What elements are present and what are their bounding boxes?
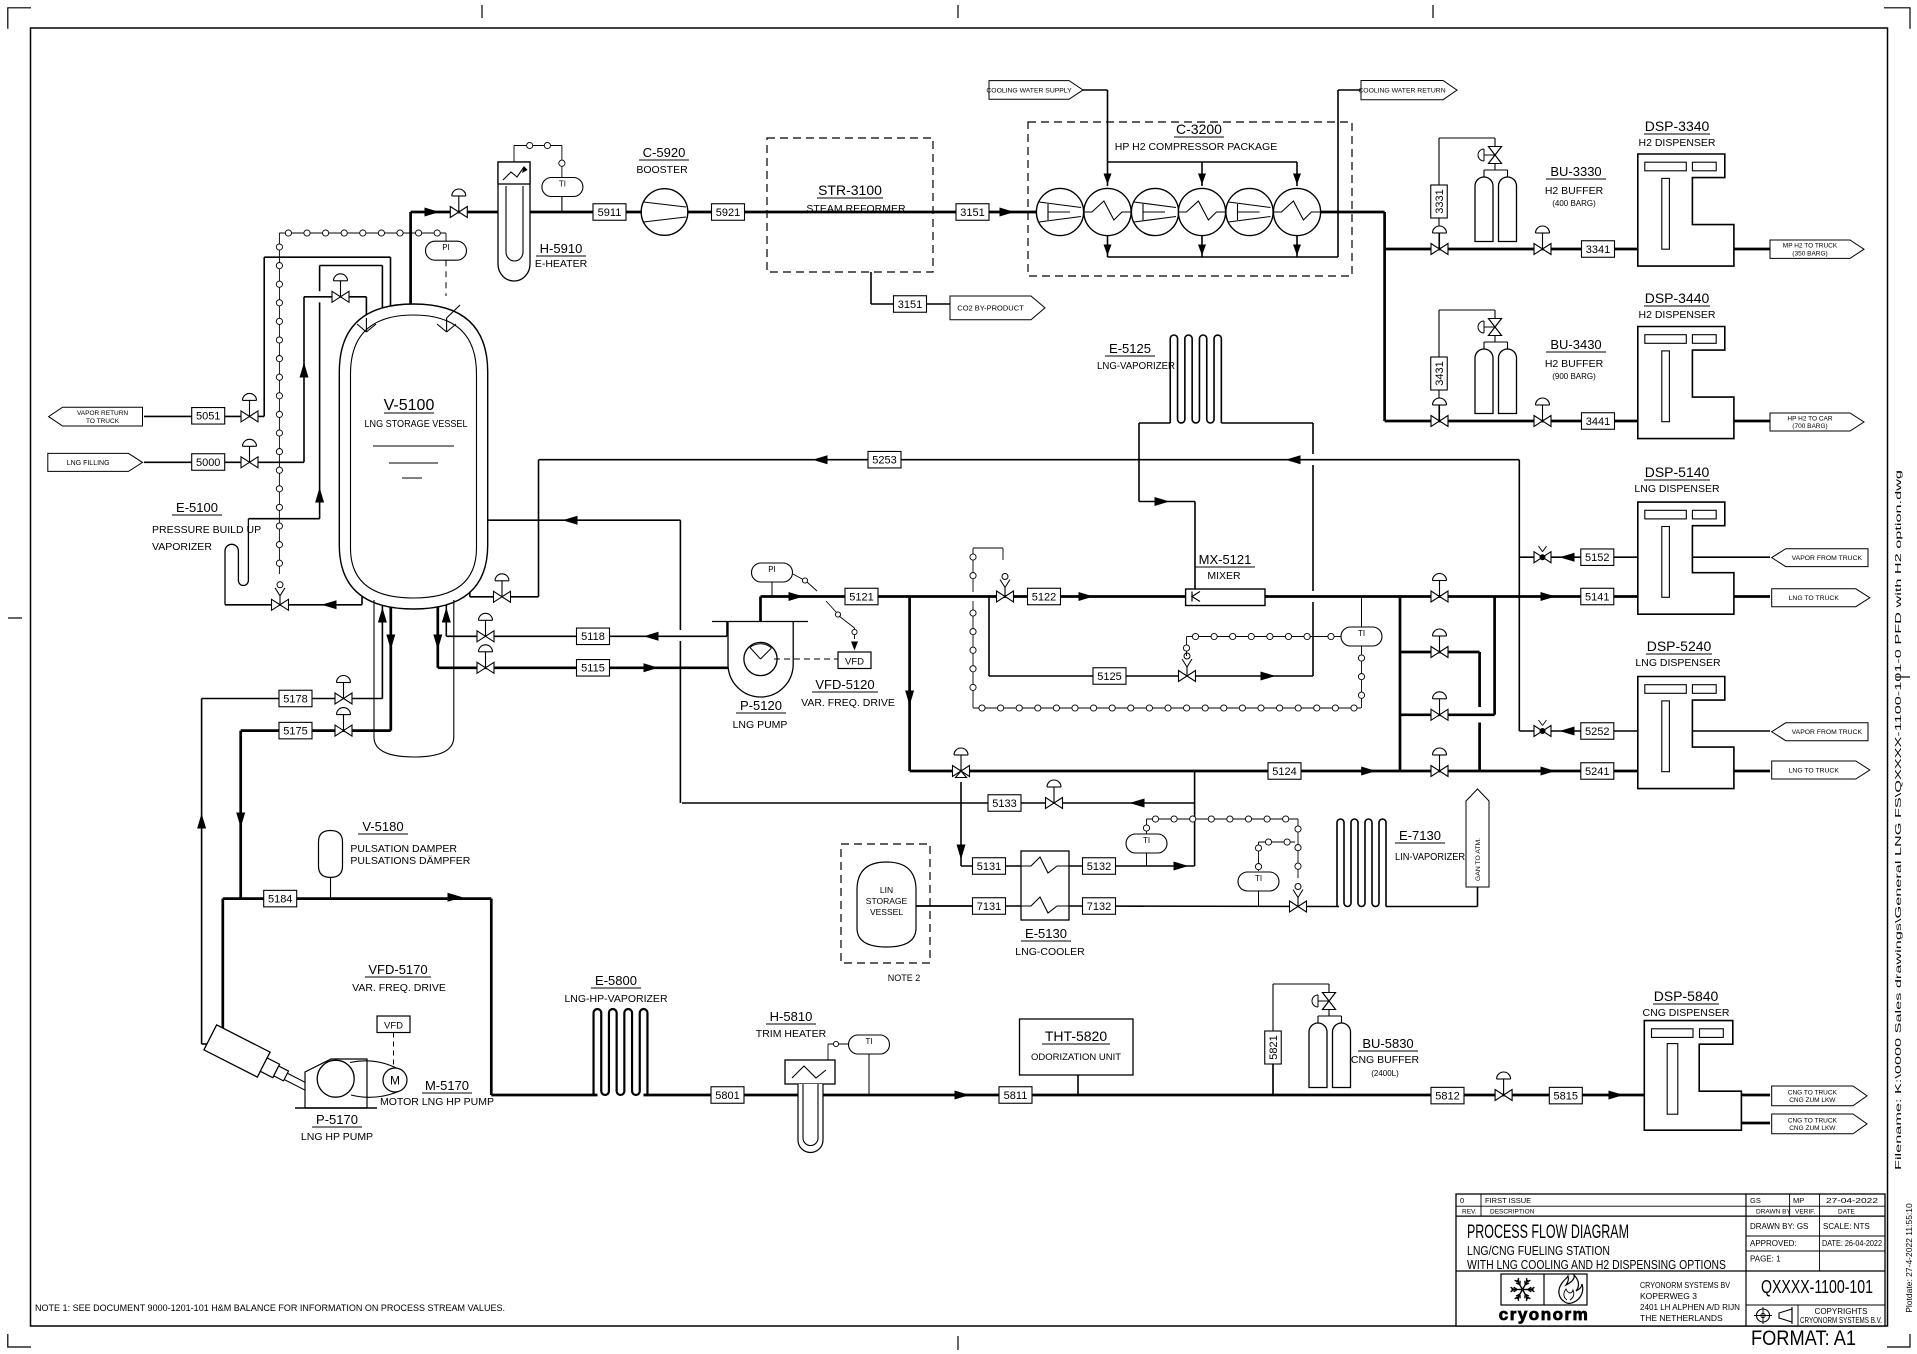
wire DSP-5840 outlet 2 bbox=[1741, 1122, 1770, 1125]
svg-text:STEAM REFORMER: STEAM REFORMER bbox=[806, 203, 906, 215]
svg-text:LNG-HP-VAPORIZER: LNG-HP-VAPORIZER bbox=[564, 993, 667, 1005]
label BU-3430 bbox=[1545, 337, 1606, 381]
label M-5170 bbox=[380, 1078, 494, 1108]
svg-text:COOLING WATER RETURN: COOLING WATER RETURN bbox=[1358, 88, 1445, 95]
arrow vessel outlet bbox=[386, 635, 395, 650]
wire CW into cooler 1 bbox=[1107, 162, 1109, 186]
svg-text:LNG-VAPORIZER: LNG-VAPORIZER bbox=[1097, 360, 1175, 372]
wire 5253 drop to vessel bbox=[538, 460, 540, 597]
valve H2 branch 2 inlet bbox=[1431, 416, 1440, 427]
wire 5118 recirc line bbox=[446, 635, 727, 637]
svg-text:3441: 3441 bbox=[1586, 416, 1610, 428]
wire vapor return riser bbox=[263, 257, 265, 416]
stream label 5121 bbox=[845, 588, 878, 605]
stream label 5115 bbox=[577, 660, 610, 677]
arrow into vessel left bbox=[378, 608, 387, 623]
wire E-5125 left leg bbox=[1138, 423, 1140, 502]
3-way valve LNG distribution bbox=[953, 766, 962, 777]
svg-text:5152: 5152 bbox=[1585, 552, 1609, 564]
sheet corner mark top-left bbox=[8, 8, 31, 29]
bottom ruler tick bbox=[957, 1336, 959, 1350]
heater H-5910 bbox=[498, 162, 530, 281]
buffer BU-5830 with cylinders bbox=[1265, 984, 1351, 1095]
arrow 3-way valve branch bbox=[957, 845, 966, 860]
svg-text:THT-5820: THT-5820 bbox=[1045, 1028, 1107, 1044]
svg-text:PAGE: 1: PAGE: 1 bbox=[1750, 1255, 1781, 1264]
wire E-5125 right leg lower bbox=[1312, 602, 1314, 676]
svg-text:WITH LNG COOLING AND H2 D: WITH LNG COOLING AND H2 DISPENSING OPTIO… bbox=[1467, 1257, 1726, 1272]
svg-text:3341: 3341 bbox=[1586, 244, 1610, 256]
valve LNG line 5141 bbox=[1431, 591, 1440, 602]
wire 5175 line bbox=[241, 729, 391, 732]
wire from CWS flag bbox=[1083, 89, 1108, 91]
svg-text:5921: 5921 bbox=[716, 207, 740, 219]
arrow CW return bbox=[1198, 245, 1206, 256]
svg-text:H2 BUFFER: H2 BUFFER bbox=[1545, 185, 1604, 197]
compressor package C-3200 stages bbox=[1036, 188, 1320, 235]
svg-text:5125: 5125 bbox=[1097, 671, 1121, 683]
stream label 5132 bbox=[1083, 858, 1116, 875]
flag LNG to truck 1 bbox=[1772, 589, 1870, 607]
svg-text:TO TRUCK: TO TRUCK bbox=[86, 418, 120, 425]
wire 5132 line bbox=[1069, 865, 1195, 867]
vessel LIN storage bbox=[857, 862, 916, 947]
svg-text:MP H2 TO TRUCK: MP H2 TO TRUCK bbox=[1783, 243, 1838, 250]
label V-5180 bbox=[350, 819, 470, 867]
svg-text:7131: 7131 bbox=[977, 901, 1001, 913]
svg-text:MOTOR LNG HP PUMP: MOTOR LNG HP PUMP bbox=[380, 1096, 494, 1108]
wire LNG filling top line bbox=[304, 296, 366, 298]
wire drop to LNG saturation loop bbox=[908, 597, 911, 772]
svg-text:5175: 5175 bbox=[283, 725, 307, 737]
arrow 5152 vapor bbox=[1560, 553, 1575, 562]
svg-text:LNG TO TRUCK: LNG TO TRUCK bbox=[1789, 767, 1840, 774]
wire 5175 drop to HP pump header bbox=[239, 731, 242, 899]
wire compressor outlet bbox=[1320, 211, 1384, 214]
svg-text:VAR. FREQ. DRIVE: VAR. FREQ. DRIVE bbox=[352, 982, 446, 994]
wire H2 line to DSP-3440 bbox=[1385, 420, 1638, 423]
wire vapor into vessel dome bbox=[390, 257, 392, 313]
arrow CW return bbox=[1104, 245, 1112, 256]
svg-text:TI: TI bbox=[1255, 874, 1262, 883]
wire 5133 line bbox=[682, 802, 1195, 804]
svg-text:5131: 5131 bbox=[977, 861, 1001, 873]
flag cooling water return bbox=[1361, 81, 1457, 100]
svg-text:LIN-VAPORIZER: LIN-VAPORIZER bbox=[1395, 851, 1465, 863]
svg-text:APPROVED:: APPROVED: bbox=[1750, 1239, 1797, 1248]
arrow 5115 suction bbox=[644, 663, 659, 672]
dispenser DSP-3340 bbox=[1638, 154, 1734, 266]
arrow 5133 line bbox=[1130, 799, 1145, 808]
svg-text:FORMAT: A1: FORMAT: A1 bbox=[1751, 1326, 1856, 1350]
wire 7132 LIN line bbox=[1069, 905, 1339, 908]
dispenser DSP-5240 bbox=[1638, 677, 1734, 789]
pump P-5170 with motor M-5170 bbox=[204, 1025, 407, 1108]
label DSP-3440 bbox=[1638, 290, 1715, 321]
svg-text:LNG HP PUMP: LNG HP PUMP bbox=[301, 1131, 373, 1143]
svg-text:5132: 5132 bbox=[1087, 861, 1111, 873]
svg-text:STORAGE: STORAGE bbox=[866, 896, 908, 906]
svg-text:NOTE 1: SEE DOCUMENT 9000: NOTE 1: SEE DOCUMENT 9000-1201-101 H&M B… bbox=[35, 1303, 505, 1314]
wire 5253 vapor return header bbox=[539, 459, 1520, 461]
wire to CWR flag bbox=[1338, 89, 1361, 91]
valve vessel gas outlet bbox=[450, 207, 459, 218]
stream label 3151 bbox=[956, 204, 989, 221]
vessel V-5100 bbox=[339, 304, 487, 609]
svg-text:CNG DISPENSER: CNG DISPENSER bbox=[1643, 1007, 1730, 1019]
wire 5132 return riser bbox=[1194, 771, 1196, 866]
wire vessel outlet to 5115 bbox=[436, 578, 439, 668]
wire DSP-3440 outlet bbox=[1734, 420, 1770, 423]
trim heater TI bbox=[828, 1035, 890, 1095]
wire DSP-5240 outlet bbox=[1734, 770, 1770, 773]
svg-text:7132: 7132 bbox=[1087, 901, 1111, 913]
stream label 5801 bbox=[711, 1087, 744, 1104]
svg-text:CRYONORM SYSTEMS BV: CRYONORM SYSTEMS BV bbox=[1640, 1280, 1730, 1290]
label E-5800 bbox=[564, 973, 667, 1005]
wire CW out cooler 1 bbox=[1107, 234, 1109, 257]
svg-text:LNG TO TRUCK: LNG TO TRUCK bbox=[1789, 595, 1840, 602]
wire vapor riser from dispensers bbox=[1518, 460, 1520, 731]
svg-text:5141: 5141 bbox=[1585, 591, 1609, 603]
svg-text:DSP-3440: DSP-3440 bbox=[1645, 290, 1710, 306]
svg-text:CNG TO TRUCK: CNG TO TRUCK bbox=[1788, 1117, 1838, 1124]
dispenser DSP-3440 bbox=[1638, 327, 1734, 439]
svg-text:5122: 5122 bbox=[1032, 591, 1056, 603]
wire E-5100 liquid feed bbox=[225, 604, 362, 606]
valve vapor return 5051 bbox=[241, 411, 250, 422]
control valve LIN vent bbox=[1290, 901, 1299, 912]
svg-text:VAR. FREQ. DRIVE: VAR. FREQ. DRIVE bbox=[801, 697, 895, 709]
wire LIN vent line bbox=[1386, 906, 1478, 908]
stream label 5124 bbox=[1268, 763, 1301, 780]
wire CW into cooler 2 bbox=[1201, 162, 1203, 186]
svg-text:PROCESS FLOW DIAGRAM: PROCESS FLOW DIAGRAM bbox=[1467, 1221, 1629, 1243]
svg-text:(2400L): (2400L) bbox=[1371, 1069, 1399, 1078]
svg-text:5811: 5811 bbox=[1004, 1090, 1028, 1102]
wire CW supply manifold bbox=[1108, 161, 1298, 163]
svg-text:BU-5830: BU-5830 bbox=[1362, 1036, 1413, 1051]
arrow CW supply bbox=[1293, 174, 1301, 185]
svg-text:TI: TI bbox=[1143, 836, 1150, 845]
arrow to DSP-5240 bbox=[1541, 767, 1556, 776]
stream label 5253 bbox=[868, 451, 901, 468]
valve crossover lower bbox=[1431, 709, 1440, 720]
stream label 5125 bbox=[1093, 668, 1126, 685]
wire crossover vertical from main bbox=[1493, 597, 1496, 715]
svg-text:PI: PI bbox=[442, 243, 450, 252]
stream label 5811 bbox=[999, 1087, 1032, 1104]
valve 5115 bbox=[477, 662, 486, 673]
instrument signal TI to valve 5122 bbox=[970, 548, 1361, 711]
svg-text:5000: 5000 bbox=[196, 457, 220, 469]
wire 5252 vapor line bbox=[1519, 730, 1638, 732]
stream label 3441 bbox=[1582, 413, 1615, 430]
stream label 5178 bbox=[279, 690, 312, 707]
wire into vessel dome bbox=[381, 266, 383, 314]
vaporizer E-5125 coil bbox=[1170, 335, 1221, 423]
svg-text:27-04-2022: 27-04-2022 bbox=[1826, 1196, 1878, 1205]
arrow 5184 line bbox=[448, 893, 463, 902]
label VFD-5120 bbox=[801, 677, 895, 709]
svg-text:QXXXX-1100-101: QXXXX-1100-101 bbox=[1761, 1277, 1873, 1297]
valve LNG filling 5000 bbox=[241, 457, 250, 468]
wire LIN vessel outlet bbox=[916, 905, 973, 907]
instrument signal PI vessel to E-5100 valve bbox=[276, 230, 446, 574]
stream label 5141 bbox=[1581, 588, 1614, 605]
svg-text:H-5910: H-5910 bbox=[540, 241, 583, 256]
svg-text:CRYONORM SYSTEMS B.V.: CRYONORM SYSTEMS B.V. bbox=[1800, 1316, 1882, 1325]
vessel liquid level lines bbox=[373, 446, 454, 478]
wire vessel bottom tap bbox=[469, 572, 471, 597]
svg-text:E-5125: E-5125 bbox=[1109, 341, 1151, 356]
stream label 7131 bbox=[973, 898, 1006, 915]
svg-text:5133: 5133 bbox=[992, 798, 1016, 810]
label BU-3330 bbox=[1545, 164, 1606, 208]
wire CW into cooler 3 bbox=[1296, 162, 1298, 186]
wire HP discharge drop bbox=[490, 899, 493, 1095]
svg-text:2401 LH ALPHEN A/D RIJN: 2401 LH ALPHEN A/D RIJN bbox=[1640, 1302, 1740, 1312]
arrow vapor into vessel bbox=[563, 516, 578, 525]
wire suction drop to P-5170 bbox=[221, 899, 224, 1041]
svg-text:HP H2 TO CAR: HP H2 TO CAR bbox=[1787, 415, 1832, 422]
svg-text:BU-3330: BU-3330 bbox=[1550, 164, 1601, 179]
arrow filling riser bbox=[300, 363, 309, 378]
stream label 5152 bbox=[1581, 549, 1614, 566]
label E-5100 bbox=[152, 500, 261, 553]
wire H2 distribution riser bbox=[1383, 212, 1386, 421]
arrow 5132 line bbox=[1174, 862, 1189, 871]
wire E-5125 right leg upper bbox=[1312, 423, 1314, 454]
svg-text:TI: TI bbox=[865, 1037, 872, 1046]
wire line into E-5800 bbox=[491, 1094, 597, 1097]
heater H-5810 bbox=[785, 1060, 835, 1152]
arrow 5252 vapor bbox=[1560, 727, 1575, 736]
title block frame bbox=[1456, 1194, 1885, 1326]
valve filling top bbox=[332, 291, 341, 302]
label C-5920 bbox=[636, 145, 689, 176]
svg-text:H2 DISPENSER: H2 DISPENSER bbox=[1638, 309, 1715, 321]
svg-text:5801: 5801 bbox=[715, 1090, 739, 1102]
label DSP-3340 bbox=[1638, 118, 1715, 149]
wire CO2 line to flag bbox=[871, 303, 950, 305]
wire vessel outlet riser bbox=[409, 212, 412, 312]
arrow to DSP-5140 bbox=[1541, 592, 1556, 601]
svg-text:KOPERWEG 3: KOPERWEG 3 bbox=[1640, 1291, 1697, 1301]
svg-text:5121: 5121 bbox=[849, 591, 873, 603]
compressor C-3200 package box bbox=[1028, 122, 1352, 276]
valve 5178 bbox=[335, 693, 344, 704]
wire 5125 bypass tap bbox=[988, 597, 990, 677]
wire 5115 pump suction line bbox=[438, 666, 728, 669]
wire dispenser manifold riser bbox=[1399, 597, 1402, 772]
svg-text:5253: 5253 bbox=[872, 455, 896, 467]
wire crossover branch upper bbox=[1400, 651, 1480, 654]
svg-text:COOLING WATER SUPPLY: COOLING WATER SUPPLY bbox=[986, 87, 1072, 94]
vessel internal nozzle right bbox=[437, 305, 460, 332]
wire CW out cooler 3 bbox=[1296, 234, 1298, 257]
arrow E-5100 riser bbox=[315, 488, 324, 503]
wire CW return manifold bbox=[1108, 256, 1339, 258]
svg-text:5118: 5118 bbox=[581, 631, 605, 643]
cooler E-5130 bbox=[1021, 851, 1069, 920]
valve vessel vapor to 5253 bbox=[494, 591, 503, 602]
svg-text:E-5100: E-5100 bbox=[176, 500, 218, 515]
vaporizer E-5800 coil bbox=[594, 1009, 648, 1095]
wire E-5100 vapor outlet bbox=[248, 518, 319, 520]
wire vessel LNG outlet down bbox=[389, 578, 392, 731]
label STR-3100 bbox=[806, 182, 906, 215]
wire E-5100 riser lower bbox=[319, 302, 321, 518]
svg-text:5184: 5184 bbox=[268, 893, 292, 905]
svg-text:H-5810: H-5810 bbox=[770, 1009, 813, 1024]
svg-text:VAPOR RETURN: VAPOR RETURN bbox=[77, 410, 128, 417]
top ruler tick bbox=[1432, 5, 1434, 18]
instrument TI 7132 line bbox=[1238, 839, 1295, 906]
svg-text:VAPORIZER: VAPORIZER bbox=[152, 541, 212, 553]
arrow 5125 line bbox=[1261, 672, 1276, 681]
svg-text:E-HEATER: E-HEATER bbox=[535, 258, 588, 270]
flag vapor from truck 1 bbox=[1772, 549, 1868, 567]
flag CNG to truck 1 bbox=[1772, 1086, 1867, 1106]
valve LNG line 5241 bbox=[1431, 766, 1440, 777]
wire GAN flag stem bbox=[1477, 887, 1479, 907]
wire vapor from truck line DSP-5240 bbox=[1692, 730, 1770, 732]
svg-text:DSP-5140: DSP-5140 bbox=[1645, 464, 1710, 480]
arrow 5253 header bbox=[813, 455, 828, 464]
wire LNG filling riser bbox=[303, 297, 305, 463]
wire LNG line 5121/5122 to DSP-5140 bbox=[761, 595, 1638, 598]
label P-5120 bbox=[733, 698, 788, 731]
flag GAN to atm bbox=[1466, 789, 1489, 887]
svg-text:VAPOR FROM TRUCK: VAPOR FROM TRUCK bbox=[1792, 555, 1863, 562]
svg-text:THE NETHERLANDS: THE NETHERLANDS bbox=[1640, 1313, 1723, 1323]
svg-text:5178: 5178 bbox=[283, 693, 307, 705]
svg-text:3151: 3151 bbox=[898, 299, 922, 311]
wire 3-way valve to E-5130 bbox=[960, 782, 962, 866]
instrument PI vessel bbox=[425, 241, 466, 260]
svg-text:5051: 5051 bbox=[196, 411, 220, 423]
label P-5170 bbox=[301, 1112, 373, 1143]
svg-text:LIN: LIN bbox=[880, 885, 893, 895]
control valve E-5100 feed bbox=[272, 599, 281, 610]
pump PI instrument bbox=[752, 563, 818, 597]
wire DSP-5840 outlet 1 bbox=[1741, 1094, 1770, 1097]
wire crossover vertical lower bbox=[1478, 723, 1481, 772]
svg-text:E-7130: E-7130 bbox=[1399, 828, 1441, 843]
wire 5131 line bbox=[961, 865, 1021, 867]
stream label 5175 bbox=[279, 722, 312, 739]
flag LNG filling bbox=[48, 453, 143, 471]
svg-text:VESSEL: VESSEL bbox=[870, 907, 903, 917]
flag vapor return to truck bbox=[49, 407, 143, 426]
svg-text:TRIM HEATER: TRIM HEATER bbox=[756, 1028, 827, 1040]
svg-text:PULSATIONS DÄMPFER: PULSATIONS DÄMPFER bbox=[350, 855, 470, 867]
wire vapor return into vessel bbox=[478, 519, 680, 521]
heater instrument line bbox=[514, 142, 565, 177]
sheet corner mark bottom-right bbox=[1887, 1334, 1910, 1347]
wire 5184 line bbox=[223, 897, 492, 900]
arrow 5124 line bbox=[1361, 767, 1376, 776]
svg-text:V-5100: V-5100 bbox=[384, 397, 435, 414]
wire CW return riser bbox=[1337, 90, 1339, 257]
wire line to mixer bbox=[1139, 501, 1195, 503]
svg-text:5815: 5815 bbox=[1554, 1090, 1578, 1102]
odorization THT-5820 bbox=[1020, 1019, 1134, 1075]
svg-text:5821: 5821 bbox=[1268, 1035, 1280, 1059]
svg-text:MP: MP bbox=[1793, 1196, 1804, 1205]
svg-text:CNG ZUM LKW: CNG ZUM LKW bbox=[1789, 1097, 1836, 1104]
svg-text:HP H2 COMPRESSOR PACKAGE: HP H2 COMPRESSOR PACKAGE bbox=[1115, 141, 1277, 153]
stream label 5122 bbox=[1028, 588, 1061, 605]
svg-text:P-5120: P-5120 bbox=[740, 698, 782, 713]
label H-5810 bbox=[756, 1009, 827, 1040]
svg-text:VAPOR FROM TRUCK: VAPOR FROM TRUCK bbox=[1792, 729, 1863, 736]
svg-text:3151: 3151 bbox=[960, 207, 984, 219]
svg-text:SCALE: NTS: SCALE: NTS bbox=[1823, 1222, 1870, 1231]
svg-text:MIXER: MIXER bbox=[1207, 570, 1241, 582]
wire recirc vertical lower bbox=[679, 641, 681, 803]
arrow 5253 right bbox=[1286, 455, 1301, 464]
stream label 3331 bbox=[1431, 185, 1448, 218]
wire E-5125 inlet header bbox=[1139, 422, 1170, 424]
wire DSP-5140 outlet bbox=[1734, 595, 1770, 598]
right ruler tick bbox=[1896, 676, 1910, 678]
stream label 5133 bbox=[988, 795, 1021, 812]
wire 5178 drop bbox=[201, 699, 203, 1045]
VFD-5170 box and signal bbox=[377, 1016, 410, 1068]
label MX-5121 bbox=[1195, 552, 1255, 582]
svg-text:LNG STORAGE VESSEL: LNG STORAGE VESSEL bbox=[365, 418, 468, 430]
valve 5118 bbox=[477, 631, 486, 642]
wire 5178 line bbox=[202, 698, 383, 700]
svg-text:LNG PUMP: LNG PUMP bbox=[733, 719, 788, 731]
svg-text:LNG DISPENSER: LNG DISPENSER bbox=[1635, 657, 1721, 669]
wire CO2 by-product drop bbox=[870, 272, 872, 304]
svg-text:5812: 5812 bbox=[1435, 1090, 1459, 1102]
wire vapor line vessel top bbox=[264, 256, 390, 258]
svg-text:V-5180: V-5180 bbox=[362, 819, 403, 834]
control valve 5125 bbox=[1179, 671, 1188, 682]
vessel pump sump bbox=[374, 600, 454, 757]
wire vapor from truck line DSP-5140 bbox=[1692, 556, 1770, 558]
svg-text:TI: TI bbox=[559, 179, 566, 188]
arrow CW supply bbox=[1198, 174, 1206, 185]
valve 5133 bbox=[1046, 798, 1055, 809]
svg-text:ODORIZATION UNIT: ODORIZATION UNIT bbox=[1031, 1052, 1121, 1063]
wire P-5120 discharge bbox=[759, 597, 762, 646]
valve 5175 bbox=[335, 725, 344, 736]
arrow vessel outlet 2 bbox=[433, 635, 442, 650]
svg-text:E-5130: E-5130 bbox=[1025, 926, 1067, 941]
wire E-5100 riser upper bbox=[319, 266, 321, 292]
wire pressure build-up to vessel top bbox=[320, 265, 383, 267]
stream label 5131 bbox=[973, 858, 1006, 875]
label E-5125 bbox=[1097, 341, 1175, 372]
sheet corner mark bottom-left bbox=[8, 1334, 31, 1347]
svg-text:CNG BUFFER: CNG BUFFER bbox=[1351, 1054, 1420, 1066]
pump P-5120 bbox=[712, 622, 808, 698]
svg-text:PRESSURE BUILD UP: PRESSURE BUILD UP bbox=[152, 524, 261, 536]
svg-text:DSP-5240: DSP-5240 bbox=[1647, 638, 1712, 654]
svg-text:M-5170: M-5170 bbox=[425, 1078, 469, 1093]
flag vapor from truck 2 bbox=[1772, 723, 1868, 741]
svg-text:DSP-3340: DSP-3340 bbox=[1645, 118, 1710, 134]
wire THT-5820 stem bbox=[1077, 1075, 1079, 1095]
svg-text:E-5800: E-5800 bbox=[595, 973, 637, 988]
wire crossover branch lower bbox=[1400, 713, 1495, 716]
steam reformer STR-3100 package box bbox=[767, 138, 933, 272]
